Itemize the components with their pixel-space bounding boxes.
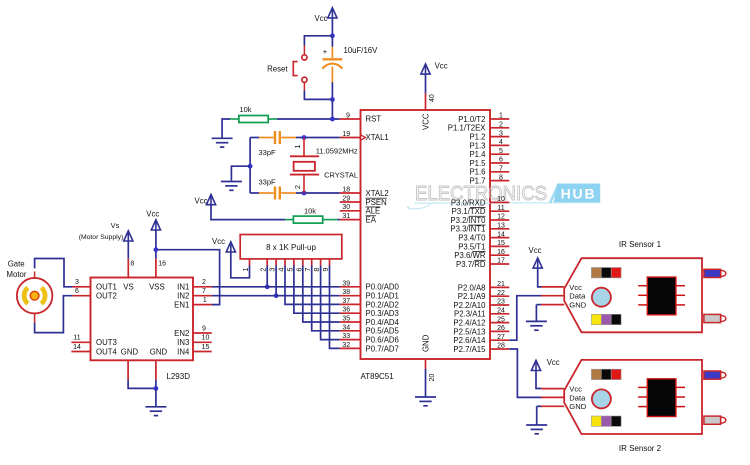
- svg-text:1: 1: [241, 267, 250, 271]
- svg-text:1: 1: [499, 113, 503, 120]
- svg-text:GND: GND: [421, 334, 430, 352]
- svg-text:P0.3/AD3: P0.3/AD3: [366, 309, 399, 318]
- wire RP1 pin3 to P0.1 net: [275, 266, 277, 296]
- wire RP1 pin8 to P0.6 net: [321, 266, 340, 340]
- IR2 comparator IC: [638, 379, 685, 417]
- pin 24 stub: [490, 313, 509, 315]
- pin 9 stub (RP1): [329, 259, 331, 266]
- svg-text:15: 15: [202, 344, 210, 351]
- pin GND stub (right): [155, 360, 157, 380]
- wire Vcc to pull-up pin 1: [231, 252, 250, 278]
- pin EA stub: [340, 219, 361, 221]
- pin 3 stub (RP1): [275, 259, 277, 266]
- svg-text:Vcc: Vcc: [195, 197, 208, 206]
- wire reset switch bottom: [304, 90, 332, 99]
- pin 7 stub: [490, 171, 509, 173]
- wire 10k to ground: [222, 119, 230, 138]
- wire RST line: [277, 118, 340, 120]
- wire IN1 to P0.0: [212, 286, 340, 288]
- svg-text:P0.5/AD5: P0.5/AD5: [366, 327, 400, 336]
- svg-text:10: 10: [202, 335, 210, 342]
- pin 36 stub: [340, 312, 361, 314]
- junction caps common: [248, 164, 253, 169]
- wire to reset switch: [304, 36, 332, 46]
- pin 2 stub: [490, 127, 509, 129]
- pin XTAL2 stub: [340, 192, 361, 194]
- wire XTAL1 line: [296, 137, 340, 139]
- IR1 comparator IC: [638, 277, 685, 315]
- pin 23 stub: [490, 304, 509, 306]
- wire Vcc to VSS pin: [155, 230, 157, 259]
- pin 4 stub (RP1): [284, 259, 286, 266]
- svg-text:Vs: Vs: [111, 221, 120, 230]
- pin 3 stub: [490, 136, 509, 138]
- svg-text:P2.7/A15: P2.7/A15: [453, 345, 486, 354]
- wire: [535, 305, 537, 321]
- pin 38 stub: [340, 295, 361, 297]
- svg-text:P2.3/A11: P2.3/A11: [454, 310, 486, 319]
- pin 21 stub: [490, 286, 509, 288]
- pin 17 stub: [490, 263, 509, 265]
- svg-text:VSS: VSS: [149, 283, 165, 292]
- microcontroller U1 AT89C51 body: [361, 110, 491, 359]
- power Vcc arrow (IR sensor 2): [531, 360, 540, 370]
- pin 2 stub (RP1): [266, 259, 268, 266]
- svg-text:18: 18: [342, 186, 350, 193]
- svg-text:P3.2/INT0: P3.2/INT0: [450, 216, 486, 225]
- wire Vcc to 10k: [211, 205, 285, 220]
- svg-text:P2.5/A13: P2.5/A13: [453, 327, 485, 336]
- pin 28 stub: [490, 348, 509, 350]
- junction GND node: [154, 386, 159, 391]
- wire to ground: [155, 388, 157, 406]
- pin 8 stub: [490, 180, 509, 182]
- pin 34 stub: [340, 330, 361, 332]
- IR sensor 1 body: [564, 258, 702, 332]
- junction P0.0 net: [265, 284, 270, 289]
- pin 1 stub (RP1): [249, 259, 251, 266]
- pin 15 IN4 stub: [193, 351, 212, 353]
- power Vs arrow (motor supply): [124, 231, 133, 241]
- svg-text:P2.4/A12: P2.4/A12: [453, 319, 485, 328]
- svg-text:12: 12: [497, 214, 505, 221]
- wire Vcc to IR2 Vcc pin: [536, 371, 542, 389]
- svg-text:2: 2: [499, 122, 503, 129]
- svg-text:24: 24: [497, 308, 505, 315]
- svg-text:AT89C51: AT89C51: [361, 372, 395, 381]
- wire 10k to EA: [337, 219, 340, 221]
- junction RST node: [330, 117, 335, 122]
- svg-text:10: 10: [497, 196, 505, 203]
- svg-text:11: 11: [497, 205, 504, 212]
- motor M1 gate motor: [17, 272, 53, 323]
- wire Vcc to pin 40: [425, 74, 427, 93]
- pin ALE stub: [340, 210, 361, 212]
- svg-text:5: 5: [499, 148, 503, 155]
- svg-text:EN2: EN2: [174, 329, 189, 338]
- pin 11 stub: [490, 210, 509, 212]
- svg-text:4: 4: [499, 139, 503, 146]
- svg-text:P3.7/RD: P3.7/RD: [456, 260, 486, 269]
- svg-text:38: 38: [342, 289, 350, 296]
- svg-text:P1.6: P1.6: [469, 168, 485, 177]
- pin 5 stub: [490, 153, 509, 155]
- wire RP1 pin6 to P0.4 net: [303, 266, 340, 323]
- svg-text:2: 2: [293, 185, 302, 189]
- svg-text:16: 16: [158, 260, 166, 267]
- power Vcc arrow (EA net): [206, 195, 215, 205]
- svg-text:P2.2/A10: P2.2/A10: [453, 301, 486, 310]
- svg-text:37: 37: [342, 298, 350, 305]
- pin 4 stub: [490, 144, 509, 146]
- svg-text:ALE: ALE: [366, 207, 381, 216]
- pin 25 stub: [490, 322, 509, 324]
- svg-text:PSEN: PSEN: [366, 198, 387, 207]
- IR2 emitter prong (blue): [704, 371, 726, 379]
- junction node reset bottom: [330, 97, 335, 102]
- pin Data stub (IR1): [541, 295, 564, 297]
- svg-text:36: 36: [342, 307, 350, 314]
- ground (crystal caps): [221, 182, 242, 191]
- resistor R3 10k: [285, 216, 337, 223]
- svg-text:Motor: Motor: [7, 270, 27, 279]
- svg-text:20: 20: [429, 374, 436, 382]
- pin 10 IN3 stub: [193, 341, 212, 343]
- svg-text:6: 6: [499, 157, 503, 164]
- power Vcc arrow (reset net): [328, 8, 337, 18]
- svg-text:RST: RST: [366, 115, 382, 124]
- svg-text:GND: GND: [569, 301, 586, 310]
- ground (AT89C51 GND): [415, 397, 436, 406]
- IR2 receiver prong (grey): [704, 416, 726, 424]
- watermark HUB flag: [554, 184, 600, 203]
- svg-text:P3.4/T0: P3.4/T0: [458, 234, 486, 243]
- pin 27 stub: [490, 339, 509, 341]
- IR1 photodiode circle: [592, 288, 611, 307]
- svg-text:P2.6/A14: P2.6/A14: [453, 336, 486, 345]
- svg-text:Vcc: Vcc: [547, 358, 560, 367]
- power Vcc arrow (pull-up net): [226, 242, 235, 252]
- svg-text:Vcc: Vcc: [529, 246, 542, 255]
- pin 14 stub: [490, 237, 509, 239]
- svg-text:XTAL1: XTAL1: [366, 133, 389, 142]
- svg-text:OUT1: OUT1: [96, 283, 117, 292]
- svg-text:1: 1: [203, 297, 207, 304]
- svg-text:P1.7: P1.7: [469, 177, 485, 186]
- svg-text:P1.0/T2: P1.0/T2: [458, 115, 485, 124]
- IR1 receiver prong (grey): [704, 314, 726, 322]
- wire: [155, 380, 157, 389]
- pin 15 stub: [490, 245, 509, 247]
- pin 8 stub (RP1): [320, 259, 322, 266]
- svg-text:9: 9: [346, 112, 350, 119]
- ground (IR sensor 2): [526, 425, 547, 434]
- svg-text:34: 34: [342, 324, 350, 331]
- pin 40 VCC stub: [425, 93, 427, 110]
- svg-text:XTAL2: XTAL2: [366, 189, 389, 198]
- svg-text:P1.5: P1.5: [469, 159, 486, 168]
- svg-text:IN3: IN3: [177, 338, 189, 347]
- wire pin 20 to ground: [425, 369, 427, 396]
- svg-text:40: 40: [429, 94, 436, 102]
- svg-text:14: 14: [497, 231, 505, 238]
- svg-text:P2.0/A8: P2.0/A8: [458, 283, 486, 292]
- svg-text:17: 17: [497, 258, 505, 265]
- push button Reset: [293, 46, 307, 91]
- svg-text:27: 27: [497, 334, 505, 341]
- pin 7 stub (RP1): [311, 259, 313, 266]
- pin Vcc stub (IR2): [541, 388, 564, 390]
- svg-text:(Motor Supply): (Motor Supply): [79, 234, 124, 241]
- svg-text:GND: GND: [150, 347, 168, 356]
- svg-text:3: 3: [499, 130, 503, 137]
- svg-text:31: 31: [342, 213, 350, 220]
- wire: [331, 82, 333, 99]
- svg-text:Vcc: Vcc: [569, 385, 582, 394]
- svg-text:Vcc: Vcc: [212, 237, 225, 246]
- svg-text:10k: 10k: [239, 105, 251, 114]
- svg-text:P0.1/AD1: P0.1/AD1: [366, 292, 399, 301]
- wire Vs to VS pin: [127, 241, 129, 259]
- svg-text:Vcc: Vcc: [435, 62, 448, 71]
- pin Vcc stub (IR1): [541, 286, 564, 288]
- crystal X1 11.0592MHz: [290, 138, 319, 194]
- svg-text:P1.2: P1.2: [469, 133, 485, 142]
- svg-text:L293D: L293D: [166, 372, 190, 381]
- svg-text:P1.1/T2EX: P1.1/T2EX: [448, 124, 487, 133]
- svg-text:P3.0/RXD: P3.0/RXD: [451, 198, 486, 207]
- svg-text:P3.3/INT1: P3.3/INT1: [450, 225, 485, 234]
- wire RP1 pin5 to P0.3 net: [294, 266, 340, 314]
- svg-text:P0.2/AD2: P0.2/AD2: [366, 300, 399, 309]
- IR2 photodiode circle: [592, 389, 611, 408]
- svg-text:Vcc: Vcc: [315, 14, 328, 23]
- wire to RST line: [331, 99, 333, 119]
- junction Vcc/EN1 node: [154, 247, 159, 252]
- svg-text:14: 14: [73, 344, 81, 351]
- svg-text:IN4: IN4: [177, 347, 190, 356]
- pin XTAL1 clock arrowhead: [361, 135, 366, 140]
- wire: [250, 192, 259, 194]
- wire Vcc to node: [331, 18, 333, 36]
- svg-text:GND: GND: [121, 347, 139, 356]
- pin 8 VS stub: [127, 259, 129, 278]
- svg-text:11: 11: [73, 335, 80, 342]
- pin 11 OUT3 stub: [71, 341, 90, 343]
- svg-text:VCC: VCC: [421, 113, 430, 130]
- wire EN1 to Vcc node: [156, 250, 220, 305]
- svg-text:IR Sensor 2: IR Sensor 2: [619, 444, 662, 453]
- wire caps common vertical: [249, 138, 251, 194]
- pin 14 OUT4 stub: [71, 351, 90, 353]
- svg-text:22: 22: [497, 290, 505, 297]
- svg-text:7: 7: [499, 166, 503, 173]
- svg-text:IR Sensor 1: IR Sensor 1: [619, 240, 662, 249]
- svg-text:8 x 1K Pull-up: 8 x 1K Pull-up: [266, 243, 316, 252]
- pin GND stub (left): [127, 360, 129, 380]
- junction node reset top: [330, 33, 335, 38]
- pin 1 stub: [490, 118, 509, 120]
- svg-text:28: 28: [497, 343, 505, 350]
- svg-text:EA: EA: [366, 215, 377, 224]
- pin 16 VSS stub: [155, 259, 157, 278]
- wire RP1 pin2 to P0.0 net: [266, 266, 268, 287]
- svg-text:16: 16: [497, 249, 505, 256]
- svg-text:2: 2: [202, 279, 206, 286]
- pin 32 stub: [340, 347, 361, 349]
- svg-text:3: 3: [75, 279, 79, 286]
- svg-text:33pF: 33pF: [259, 148, 277, 157]
- pin 39 stub: [340, 286, 361, 288]
- watermark swoosh tail: [407, 203, 430, 209]
- junction P0.1 net: [274, 293, 279, 298]
- IR sensor 2 body: [564, 360, 702, 434]
- svg-text:39: 39: [342, 280, 350, 287]
- wire to ground: [231, 166, 250, 181]
- pin 37 stub: [340, 303, 361, 305]
- svg-text:11.0592MHz: 11.0592MHz: [316, 147, 358, 156]
- motor driver U2 L293D body: [91, 278, 194, 361]
- svg-text:EN1: EN1: [174, 301, 189, 310]
- wire motor bottom to OUT2: [35, 296, 73, 333]
- pin GND stub (IR2): [541, 405, 564, 407]
- wire RP1 pin7 to P0.5 net: [312, 266, 340, 331]
- resistor pack RP1 8 x 1K Pull-up: [240, 235, 342, 259]
- wire RP1 pin9 to P0.7 net: [330, 266, 340, 349]
- svg-text:Gate: Gate: [8, 260, 25, 269]
- svg-text:P3.5/T1: P3.5/T1: [458, 242, 485, 251]
- IR1 emitter prong (blue): [704, 269, 726, 277]
- svg-text:P0.7/AD7: P0.7/AD7: [366, 344, 399, 353]
- svg-text:IN2: IN2: [177, 292, 189, 301]
- pin 6 OUT2 stub: [72, 295, 90, 297]
- svg-text:GND: GND: [569, 402, 586, 411]
- junction XTAL1 node: [302, 135, 307, 140]
- svg-text:Data: Data: [569, 292, 586, 301]
- ground (RST pulldown): [212, 138, 233, 147]
- pin 16 stub: [490, 254, 509, 256]
- svg-text:8: 8: [499, 174, 503, 181]
- pin 5 stub (RP1): [293, 259, 295, 266]
- svg-text:P0.6/AD6: P0.6/AD6: [366, 336, 399, 345]
- svg-text:P3.6/WR: P3.6/WR: [454, 251, 486, 260]
- svg-text:OUT3: OUT3: [96, 338, 117, 347]
- svg-text:8: 8: [130, 260, 134, 267]
- svg-text:P0.0/AD0: P0.0/AD0: [366, 283, 400, 292]
- svg-text:33: 33: [342, 333, 350, 340]
- svg-text:23: 23: [497, 299, 505, 306]
- pin 13 stub: [490, 228, 509, 230]
- svg-text:+: +: [323, 47, 328, 56]
- svg-text:10k: 10k: [304, 206, 316, 215]
- capacitor C3 33pF: [259, 187, 296, 200]
- svg-text:6: 6: [75, 288, 79, 295]
- svg-text:Vcc: Vcc: [146, 210, 159, 219]
- wire: [331, 36, 333, 47]
- pin 26 stub: [490, 330, 509, 332]
- pin 6 stub (RP1): [302, 259, 304, 266]
- svg-text:21: 21: [497, 281, 505, 288]
- pin Data stub (IR2): [541, 396, 564, 398]
- svg-text:26: 26: [497, 325, 505, 332]
- watermark swoosh: [414, 202, 601, 205]
- svg-text:33pF: 33pF: [259, 177, 277, 186]
- power Vcc arrow (VSS net): [151, 220, 160, 230]
- wire XTAL2 line: [296, 192, 340, 194]
- pin 10 stub: [490, 201, 509, 203]
- svg-text:P2.1/A9: P2.1/A9: [458, 292, 486, 301]
- power Vcc arrow (chip VCC): [421, 64, 430, 74]
- wire RP1 pin4 to P0.2 net: [285, 266, 340, 305]
- resistor R1 10k: [230, 116, 277, 123]
- IR1 calibration squares (brown/black/red): [591, 268, 621, 278]
- svg-text:7: 7: [202, 288, 206, 295]
- svg-text:35: 35: [342, 316, 350, 323]
- svg-text:19: 19: [342, 131, 350, 138]
- svg-text:13: 13: [497, 223, 505, 230]
- wire IN2 to P0.1: [212, 295, 340, 297]
- svg-text:30: 30: [342, 204, 350, 211]
- pin 2 IN1 stub: [193, 286, 212, 288]
- pin RST stub: [340, 118, 361, 120]
- wire P2.6 to IR sensor 1 Data: [509, 296, 541, 341]
- svg-text:15: 15: [497, 240, 505, 247]
- svg-text:OUT2: OUT2: [96, 292, 117, 301]
- svg-text:10uF/16V: 10uF/16V: [344, 46, 379, 55]
- svg-text:CRYSTAL: CRYSTAL: [324, 171, 358, 180]
- pin 33 stub: [340, 339, 361, 341]
- IR2 calibration squares (brown/black/red): [591, 369, 621, 379]
- capacitor C2 33pF: [259, 131, 296, 144]
- pin PSEN stub: [340, 201, 361, 203]
- junction XTAL2 node: [302, 191, 307, 196]
- svg-text:P3.1/TXD: P3.1/TXD: [452, 207, 486, 216]
- svg-text:29: 29: [342, 195, 350, 202]
- svg-text:Data: Data: [569, 393, 586, 402]
- power Vcc arrow (IR sensor 1): [533, 258, 542, 268]
- svg-text:OUT4: OUT4: [96, 347, 117, 356]
- wire P2.7 to IR sensor 2 Data: [509, 349, 541, 397]
- watermark slash: [550, 185, 558, 202]
- capacitor C1 10uF/16V: [322, 47, 342, 82]
- wire: [536, 406, 538, 424]
- svg-text:P0.4/AD4: P0.4/AD4: [366, 318, 400, 327]
- wire: [250, 137, 259, 139]
- svg-text:9: 9: [202, 325, 206, 332]
- pin 7 IN2 stub: [193, 295, 212, 297]
- svg-text:HUB: HUB: [561, 186, 597, 202]
- pin 12 stub: [490, 219, 509, 221]
- pin 35 stub: [340, 321, 361, 323]
- svg-text:VS: VS: [123, 283, 133, 292]
- svg-text:Reset: Reset: [267, 64, 288, 73]
- pin 3 OUT1 stub: [72, 286, 90, 288]
- pin 6 stub: [490, 162, 509, 164]
- svg-text:P1.3: P1.3: [469, 141, 485, 150]
- pin 22 stub: [490, 295, 509, 297]
- wire IR2 GND pin to ground: [537, 405, 542, 407]
- pin 9 EN2 stub: [193, 332, 212, 334]
- svg-text:IN1: IN1: [177, 283, 189, 292]
- svg-text:1: 1: [293, 145, 302, 149]
- pin GND stub (IR1): [541, 304, 564, 306]
- pin XTAL1 stub: [340, 137, 361, 139]
- IR1 squares (yellow/purple/black): [591, 314, 621, 324]
- svg-text:32: 32: [342, 342, 350, 349]
- ground (IR sensor 1): [526, 321, 547, 330]
- wire IR1 GND pin to ground: [536, 304, 541, 306]
- wire Vcc to IR1 Vcc pin: [538, 268, 542, 287]
